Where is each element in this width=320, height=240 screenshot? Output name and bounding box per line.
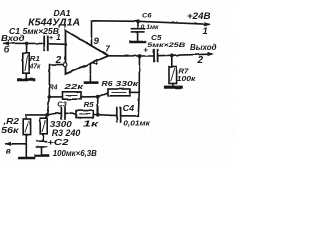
svg-text:С3: С3 bbox=[57, 100, 67, 109]
svg-text:С6: С6 bbox=[142, 13, 152, 20]
svg-text:DA1: DA1 bbox=[54, 8, 71, 18]
svg-text:2: 2 bbox=[197, 55, 204, 66]
svg-text:R5: R5 bbox=[84, 100, 95, 109]
svg-text:+С2: +С2 bbox=[47, 137, 69, 147]
svg-text:4: 4 bbox=[92, 57, 98, 67]
svg-text:100к: 100к bbox=[177, 74, 197, 83]
svg-text:С4: С4 bbox=[123, 103, 135, 113]
svg-text:22к: 22к bbox=[63, 82, 85, 91]
svg-text:9: 9 bbox=[94, 36, 100, 47]
svg-text:330к: 330к bbox=[116, 79, 140, 88]
svg-text:+: + bbox=[49, 33, 54, 42]
svg-text:R6: R6 bbox=[102, 79, 114, 88]
svg-text:47к: 47к bbox=[29, 61, 41, 70]
svg-text:Выход: Выход bbox=[190, 42, 217, 52]
svg-text:0,01мк: 0,01мк bbox=[123, 119, 151, 128]
svg-text:1к: 1к bbox=[83, 119, 99, 129]
svg-text:+24В: +24В bbox=[187, 11, 211, 21]
svg-text:+: + bbox=[143, 45, 148, 54]
svg-text:56к: 56к bbox=[1, 125, 19, 135]
svg-text:7: 7 bbox=[105, 45, 110, 54]
svg-text:100мк×6,3В: 100мк×6,3В bbox=[53, 149, 97, 158]
svg-text:в: в bbox=[6, 146, 11, 156]
svg-text:R4: R4 bbox=[49, 83, 58, 92]
svg-text:5мк×25В: 5мк×25В bbox=[147, 42, 185, 49]
svg-text:2: 2 bbox=[55, 55, 62, 66]
svg-text:1: 1 bbox=[203, 26, 208, 37]
svg-text:1: 1 bbox=[56, 33, 61, 42]
svg-text:б: б bbox=[4, 45, 10, 55]
svg-text:0,1мк: 0,1мк bbox=[141, 24, 160, 31]
svg-text:Вход: Вход bbox=[1, 34, 25, 43]
